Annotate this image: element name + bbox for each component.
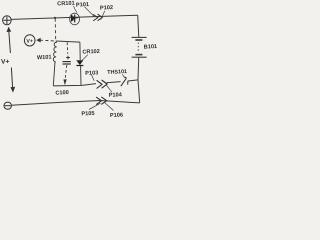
svg-text:CR101: CR101 xyxy=(57,1,75,8)
svg-text:P101: P101 xyxy=(76,2,89,9)
svg-text:THS101: THS101 xyxy=(107,69,127,76)
svg-text:P103: P103 xyxy=(85,70,98,77)
svg-text:V+: V+ xyxy=(26,38,33,44)
svg-text:P105: P105 xyxy=(81,111,94,118)
svg-text:CR102: CR102 xyxy=(82,49,100,56)
svg-text:P104: P104 xyxy=(109,92,123,99)
svg-text:P106: P106 xyxy=(110,112,123,119)
svg-text:V+: V+ xyxy=(1,58,10,65)
svg-text:W101: W101 xyxy=(37,55,52,62)
svg-text:C100: C100 xyxy=(55,90,69,97)
svg-text:B101: B101 xyxy=(144,44,157,51)
svg-text:P102: P102 xyxy=(100,5,113,12)
